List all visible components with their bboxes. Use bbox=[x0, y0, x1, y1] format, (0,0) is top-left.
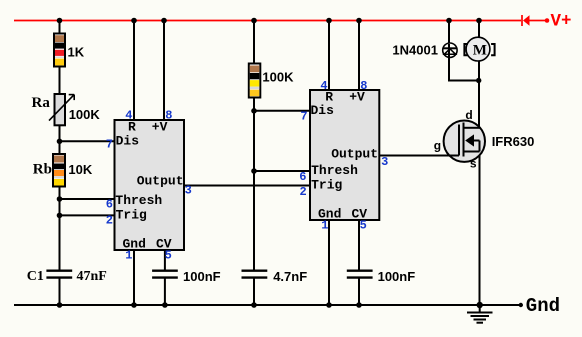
svg-text:Output: Output bbox=[137, 173, 184, 188]
svg-text:100nF: 100nF bbox=[183, 269, 221, 284]
svg-text:Gnd: Gnd bbox=[526, 295, 560, 317]
svg-text:1: 1 bbox=[321, 219, 328, 233]
svg-text:Dis: Dis bbox=[311, 103, 335, 118]
svg-text:7: 7 bbox=[106, 137, 113, 151]
svg-text:2: 2 bbox=[299, 185, 306, 199]
svg-text:47nF: 47nF bbox=[77, 269, 107, 284]
svg-text:100K: 100K bbox=[69, 107, 101, 122]
svg-text:4: 4 bbox=[125, 109, 132, 123]
svg-text:100K: 100K bbox=[262, 70, 294, 85]
svg-text:C1: C1 bbox=[27, 269, 44, 284]
svg-text:4: 4 bbox=[320, 79, 327, 93]
svg-text:7: 7 bbox=[300, 110, 307, 124]
svg-text:d: d bbox=[465, 108, 472, 122]
svg-text:Dis: Dis bbox=[116, 133, 140, 148]
svg-text:3: 3 bbox=[185, 184, 192, 198]
svg-text:1K: 1K bbox=[68, 45, 85, 60]
svg-text:s: s bbox=[470, 157, 477, 171]
svg-text:3: 3 bbox=[381, 155, 388, 169]
svg-text:100nF: 100nF bbox=[378, 269, 416, 284]
svg-text:5: 5 bbox=[165, 248, 172, 262]
svg-text:Rb: Rb bbox=[33, 162, 52, 178]
svg-text:4.7nF: 4.7nF bbox=[273, 269, 307, 284]
svg-text:Trig: Trig bbox=[311, 177, 342, 192]
svg-text:IFR630: IFR630 bbox=[492, 134, 535, 149]
svg-text:M: M bbox=[473, 43, 487, 59]
svg-text:g: g bbox=[434, 139, 441, 153]
svg-text:1: 1 bbox=[125, 249, 132, 263]
svg-text:8: 8 bbox=[165, 109, 172, 123]
svg-text:Trig: Trig bbox=[116, 208, 147, 223]
svg-text:V+: V+ bbox=[551, 12, 572, 32]
svg-text:8: 8 bbox=[360, 79, 367, 93]
svg-text:Output: Output bbox=[331, 146, 378, 161]
svg-text:2: 2 bbox=[106, 213, 113, 227]
svg-text:10K: 10K bbox=[68, 162, 92, 177]
svg-text:Ra: Ra bbox=[32, 95, 51, 111]
svg-text:Thresh: Thresh bbox=[115, 193, 162, 208]
svg-text:Thresh: Thresh bbox=[311, 163, 358, 178]
svg-text:1N4001: 1N4001 bbox=[392, 43, 438, 58]
svg-text:5: 5 bbox=[360, 218, 367, 232]
svg-text:6: 6 bbox=[299, 170, 306, 184]
svg-text:6: 6 bbox=[106, 198, 113, 212]
